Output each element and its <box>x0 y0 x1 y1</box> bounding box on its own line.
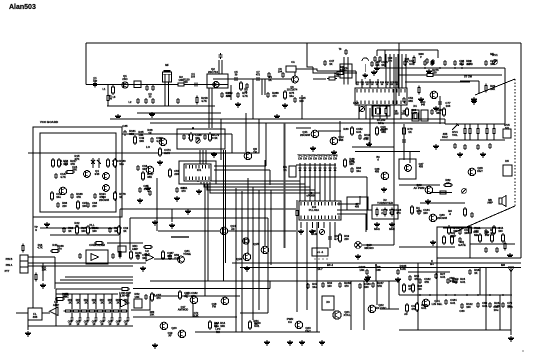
wire rail y235 <box>50 234 119 236</box>
label Q31 <box>183 249 191 256</box>
capacitor C73 <box>453 143 457 149</box>
resistor R60 <box>438 191 448 194</box>
svg-text:AM MOD: AM MOD <box>178 309 189 312</box>
capacitor C39 <box>136 164 148 171</box>
ground X2 a <box>374 222 380 227</box>
svg-text:CH: CH <box>303 156 307 160</box>
capacitor C4 <box>193 83 199 87</box>
svg-text:VAR: VAR <box>311 232 317 236</box>
svg-text:1K: 1K <box>75 224 79 228</box>
wire matrix drop 3 <box>372 105 374 119</box>
transistor Q29 AF drv <box>425 186 433 194</box>
svg-text:4.7K: 4.7K <box>242 94 248 98</box>
svg-text:1K: 1K <box>108 301 111 304</box>
wire matrix riser 5 <box>401 54 403 88</box>
wire RF rail <box>86 84 228 86</box>
wire rail y267 <box>240 267 521 269</box>
capacitor C15 <box>403 59 415 66</box>
label TP6 <box>322 154 328 161</box>
svg-text:220: 220 <box>62 204 67 208</box>
op-amp U4 limiter <box>121 299 130 307</box>
wire IC2 bottom pin 2 <box>306 222 308 228</box>
resistor R47 <box>35 273 37 282</box>
label uPD <box>306 192 316 198</box>
svg-text:PIN A: PIN A <box>6 264 13 267</box>
label R165 <box>400 264 407 271</box>
svg-text:103: 103 <box>423 211 428 215</box>
label LU7 <box>116 299 121 304</box>
wire IC2 pin drop x330 <box>329 222 331 248</box>
crystal X1 <box>376 108 381 114</box>
capacitor CL7 ladder <box>119 316 122 322</box>
ground VCO <box>44 222 50 227</box>
capacitor CL3 ladder <box>87 316 90 322</box>
transistor Q23 det <box>295 321 303 329</box>
diode D3 varicap <box>319 229 324 234</box>
wire bus IC1-IC2 line 4 <box>207 182 315 201</box>
resistor R28 <box>190 132 202 142</box>
squelch box <box>437 227 470 258</box>
wire preamp rails2 <box>60 279 133 281</box>
wire vert x487 rx <box>486 124 488 140</box>
ground Q19 <box>152 343 158 348</box>
capacitor C16 <box>443 60 447 66</box>
wire rail y263 <box>232 262 521 264</box>
label RA <box>283 165 287 172</box>
wire ladder riser 1 <box>71 294 73 316</box>
label Q4 <box>95 169 100 176</box>
svg-text:220: 220 <box>92 204 97 208</box>
capacitor C43 <box>328 234 340 241</box>
ground c1213 <box>374 66 380 71</box>
wire matrix riser 6 <box>405 54 407 88</box>
wire Q14 rail <box>228 230 296 232</box>
label IC1 <box>197 168 202 172</box>
capacitor C28 <box>54 172 67 179</box>
ground under C14 <box>426 69 432 74</box>
label mod <box>134 292 140 299</box>
label R7 <box>405 58 410 64</box>
wire U2 out <box>154 258 180 260</box>
svg-text:MHz: MHz <box>374 227 380 231</box>
transistor Q4 VCO <box>103 173 110 180</box>
wire ladder riser 8 <box>127 294 129 316</box>
label U2 <box>144 249 150 256</box>
svg-text:Q16: Q16 <box>236 257 242 261</box>
label PIN A <box>6 264 13 267</box>
capacitor C22 <box>176 98 180 104</box>
wire vert x302 <box>301 95 303 119</box>
svg-text:10p: 10p <box>93 80 98 83</box>
label R26 <box>147 128 153 135</box>
resistor R2 <box>176 77 190 85</box>
transistor Q28 det <box>468 168 476 176</box>
wire IC2 right 2 <box>337 209 372 211</box>
label C35 <box>122 124 128 128</box>
svg-text:RV1: RV1 <box>492 53 498 57</box>
capacitor C77 <box>438 100 442 106</box>
capacitor C69 <box>417 208 430 215</box>
svg-text:10K: 10K <box>178 78 183 82</box>
label 2SC945 <box>449 276 455 283</box>
label B6d <box>376 156 380 162</box>
svg-text:R41: R41 <box>52 243 58 247</box>
label TP8 <box>332 154 338 161</box>
label R3 <box>244 88 248 94</box>
capacitor C5 <box>233 77 239 81</box>
capacitor C85 <box>148 190 152 196</box>
wire IC2 top pin 5 <box>319 175 321 201</box>
resistor R82 <box>443 184 453 187</box>
capacitor C6 <box>245 83 249 89</box>
wire x410 vert top <box>409 152 411 164</box>
wire left bus x33 <box>32 153 34 308</box>
label Q18 <box>212 303 217 309</box>
resistor network box <box>289 166 296 177</box>
svg-text:1K: 1K <box>214 136 217 140</box>
wire vert x383 <box>395 57 397 105</box>
wire x340 vert <box>339 121 341 141</box>
label 10.240 <box>377 118 386 125</box>
capacitor C49 <box>144 293 156 300</box>
capacitor CL2 ladder <box>79 316 82 322</box>
resistor R20 <box>114 191 126 201</box>
svg-text:1K: 1K <box>68 229 71 233</box>
svg-text:455: 455 <box>355 206 360 209</box>
filter input box <box>28 308 42 320</box>
resistor R34 <box>376 126 388 136</box>
pot box RV5 <box>503 129 511 138</box>
svg-text:10.7: 10.7 <box>317 267 323 271</box>
svg-text:1K: 1K <box>92 301 95 304</box>
wire IC2 bottom pin 4 <box>317 222 319 228</box>
svg-text:AMP: AMP <box>53 303 59 307</box>
wire af top rail <box>56 288 125 290</box>
svg-text:2SC945: 2SC945 <box>300 133 311 137</box>
trimmer RV6 <box>462 189 467 194</box>
transistor Q18 FM mod <box>221 297 229 305</box>
svg-text:1K: 1K <box>329 62 332 66</box>
transistor Q30 <box>429 214 437 222</box>
label LIN <box>430 259 434 266</box>
wire x242 vert <box>241 191 243 332</box>
VCO board inner box <box>40 133 116 212</box>
wire x440b <box>439 96 441 124</box>
wire bus y119 <box>110 118 445 120</box>
resistor R65 <box>504 242 506 251</box>
wire y177 seg <box>300 176 367 178</box>
resistor R39 <box>339 233 350 243</box>
wire IC2 bottom pin 3 <box>312 222 314 228</box>
svg-text:220: 220 <box>432 71 437 75</box>
label sq <box>458 240 466 247</box>
label Q30 <box>437 213 448 220</box>
wire x376 vert <box>375 265 377 281</box>
label R4 <box>268 75 272 82</box>
capacitor C78 <box>458 237 462 243</box>
label T3 <box>339 48 342 51</box>
capacitor C63 <box>460 302 473 309</box>
label L0 <box>103 88 107 91</box>
resistor R21 <box>77 200 88 210</box>
wire bus IC1-IC2 line 2 <box>201 182 305 201</box>
wire y185 seg <box>399 184 440 186</box>
capacitor C75 <box>476 144 480 150</box>
wire x505b vert <box>504 80 506 124</box>
ground Q26 <box>381 187 387 192</box>
label Q21 <box>343 310 350 317</box>
label M5 <box>490 53 494 56</box>
label LL6 <box>108 321 113 326</box>
transistor Q26 IF <box>381 172 389 180</box>
capacitor C57 <box>418 277 431 284</box>
svg-text:0.01: 0.01 <box>356 130 362 134</box>
wire IC2 bottom pin 6 <box>329 222 331 228</box>
svg-text:CH: CH <box>298 156 302 160</box>
wire rail y50 <box>377 49 438 51</box>
wire T2 core a <box>218 60 220 74</box>
capacitor CL1 ladder <box>71 316 74 322</box>
wire seg y81 <box>460 80 479 82</box>
trimmer RV2 <box>196 139 200 143</box>
wire af rail2 <box>42 312 50 314</box>
wire x259 drop <box>221 119 259 153</box>
svg-text:C40: C40 <box>180 186 186 190</box>
svg-text:1K: 1K <box>356 84 359 86</box>
resistor R56 <box>412 283 423 293</box>
label RV4 <box>452 130 458 137</box>
capacitor C50 <box>214 321 226 328</box>
wire pin line 2 <box>28 262 146 264</box>
resistor R61 <box>411 205 422 215</box>
connector J2 <box>20 255 28 273</box>
svg-text:PIN B: PIN B <box>6 258 13 261</box>
svg-text:945: 945 <box>421 103 426 106</box>
capacitor C86 <box>219 53 223 59</box>
ground rx2 <box>430 240 436 245</box>
resistor R31 <box>169 168 180 178</box>
svg-text:3.3K: 3.3K <box>193 314 198 317</box>
svg-text:RV3: RV3 <box>353 101 359 105</box>
svg-text:CH: CH <box>313 156 317 160</box>
svg-text:LIM 455: LIM 455 <box>120 295 130 298</box>
wire drop x356 <box>355 71 357 85</box>
wire T1 lead a <box>164 82 166 106</box>
resistor R51 <box>151 292 162 302</box>
wire matrix riser 2 <box>389 54 391 88</box>
resistor R80 <box>491 233 494 243</box>
wire heavy vertical x284 <box>284 123 286 248</box>
svg-text:1K: 1K <box>119 195 122 199</box>
wire RF rail hi <box>213 78 291 80</box>
label 10.7 <box>317 267 323 271</box>
ground lamp <box>355 254 361 259</box>
svg-text:VCO BOARD: VCO BOARD <box>40 120 59 124</box>
ground U2 <box>140 266 146 271</box>
label IC2 <box>309 205 319 212</box>
wire y147 seg <box>352 146 394 148</box>
wire x271 vert <box>270 190 272 265</box>
svg-text:10K: 10K <box>138 133 143 137</box>
label RV3 <box>353 101 359 105</box>
transistor Q11 <box>311 130 319 138</box>
wire y148 seg <box>355 151 420 153</box>
svg-text:DET: DET <box>305 329 311 333</box>
wire IC2 top pin 8 <box>334 175 336 201</box>
resistor R58 <box>416 302 428 312</box>
svg-text:PTT: PTT <box>5 270 10 273</box>
label C40 <box>180 186 186 190</box>
wire Q2 drop <box>230 85 232 100</box>
diode D11 programming <box>303 163 306 175</box>
transistor Q19 <box>160 322 168 330</box>
capacitor C59 <box>446 277 459 284</box>
transistor Q24 reg <box>422 299 430 307</box>
label pin nums <box>0 0 1 1</box>
resistor R41 <box>50 244 64 253</box>
wire PA diagonal top <box>475 79 515 95</box>
label C23 <box>225 91 231 98</box>
resistor R64 <box>493 225 504 235</box>
svg-text:B+: B+ <box>430 262 434 266</box>
svg-text:TONE: TONE <box>183 252 191 256</box>
transistor Q22 rx osc <box>368 305 376 313</box>
wire matrix drop 4 <box>379 105 381 119</box>
wire x307 vert <box>306 225 308 310</box>
capacitor C64 <box>476 301 488 308</box>
wire x394 to rail <box>393 190 395 245</box>
capacitor C51 <box>306 282 318 289</box>
wire bottom rail y330 <box>399 329 511 331</box>
ground rx3 <box>457 152 463 157</box>
label LU5 <box>100 299 105 304</box>
diode D12 programming <box>308 163 311 175</box>
wire bus IC1-IC2 line 3 <box>204 182 310 201</box>
resistor R16 <box>107 158 119 168</box>
capacitor C38 <box>203 133 215 140</box>
ground b3 <box>299 340 305 345</box>
wire vert x470 rx <box>469 124 471 140</box>
resistor RL3 ladder <box>80 310 89 312</box>
junction y68 d <box>454 67 456 69</box>
svg-text:1K: 1K <box>116 301 119 304</box>
wire x172 vert <box>171 209 173 222</box>
label Q27 <box>419 163 424 169</box>
ground q25b <box>433 106 439 111</box>
svg-text:4.7K: 4.7K <box>349 160 355 164</box>
wire x377b vert <box>376 281 378 305</box>
wire y203 rail <box>420 202 465 204</box>
svg-text:AMP: AMP <box>450 234 456 238</box>
ground q29 <box>425 199 431 204</box>
transistor Q9 <box>146 166 154 174</box>
resistor R10 <box>107 94 109 103</box>
svg-text:455: 455 <box>375 171 380 174</box>
label R1 <box>108 95 113 101</box>
label C77 <box>445 101 451 108</box>
svg-text:CH: CH <box>328 156 332 160</box>
capacitor C21 <box>144 98 148 104</box>
ground c82 <box>364 277 370 282</box>
wire y140 rail <box>440 139 505 141</box>
label diode row a <box>393 111 399 115</box>
label near R38 <box>349 157 355 164</box>
wire bus y123 <box>150 122 445 124</box>
label L3 <box>291 61 295 64</box>
label C66 <box>507 305 513 309</box>
lamp LP1 TX indicator <box>355 242 362 249</box>
diode D17 programming <box>333 163 336 175</box>
capacitor C33 <box>62 226 74 233</box>
capacitor C48 <box>185 291 198 298</box>
svg-text:0.01: 0.01 <box>411 111 417 115</box>
diode box <box>503 165 512 176</box>
wire vert x209 <box>208 88 210 128</box>
wire mid link b <box>269 170 271 185</box>
resistor R77 <box>443 235 446 245</box>
svg-text:220: 220 <box>174 172 179 176</box>
wire T2 core b <box>221 60 223 74</box>
svg-text:B6 d: B6 d <box>327 263 333 267</box>
capacitor C37 <box>182 133 195 140</box>
svg-text:C35: C35 <box>122 124 128 128</box>
label R22 <box>74 221 80 228</box>
crystal X5 <box>421 110 428 121</box>
wire bus IC1-IC2 line 1 <box>198 181 300 201</box>
svg-text:103: 103 <box>498 229 503 233</box>
resistor R19 <box>51 191 62 201</box>
wire lamp rail <box>362 244 394 246</box>
svg-text:1K: 1K <box>283 168 287 172</box>
wire bus y209 <box>120 208 296 210</box>
svg-text:10K: 10K <box>359 268 364 272</box>
label Q8 <box>253 147 257 154</box>
label Q24 <box>432 299 443 306</box>
capacitor C65 <box>488 301 501 308</box>
svg-text:1K: 1K <box>148 131 152 135</box>
label B+ <box>448 209 452 216</box>
wire matrix riser 3 <box>393 54 395 88</box>
resistor R49 <box>120 288 130 291</box>
svg-text:NB: NB <box>474 233 478 237</box>
wire pin vert x55 <box>54 257 56 289</box>
svg-text:220: 220 <box>183 80 188 84</box>
VCO board outer box <box>33 127 122 217</box>
capacitor C45 <box>111 253 115 259</box>
label Q19 <box>168 332 173 338</box>
label AF AMP <box>63 292 69 299</box>
resistor R23 <box>87 225 99 235</box>
capacitor C60 <box>454 277 466 284</box>
ground Q11 <box>310 146 316 151</box>
label RB9 <box>395 82 400 86</box>
label RV5 <box>504 123 510 130</box>
svg-text:10u: 10u <box>356 169 361 173</box>
transformer T3 box <box>340 64 352 78</box>
capacitor C26 <box>293 96 306 103</box>
svg-text:47K: 47K <box>424 280 429 284</box>
label TP7 <box>327 154 333 161</box>
transistor Q16 <box>243 253 251 261</box>
resistor R50 <box>179 290 191 300</box>
IF can box <box>399 159 416 179</box>
capacitor C25 <box>266 91 279 98</box>
wire x404 vert <box>403 124 405 160</box>
wire vert x212 <box>211 88 213 128</box>
svg-text:MF: MF <box>165 64 169 67</box>
label Q3 <box>287 86 298 92</box>
capacitor C23 <box>220 91 233 98</box>
